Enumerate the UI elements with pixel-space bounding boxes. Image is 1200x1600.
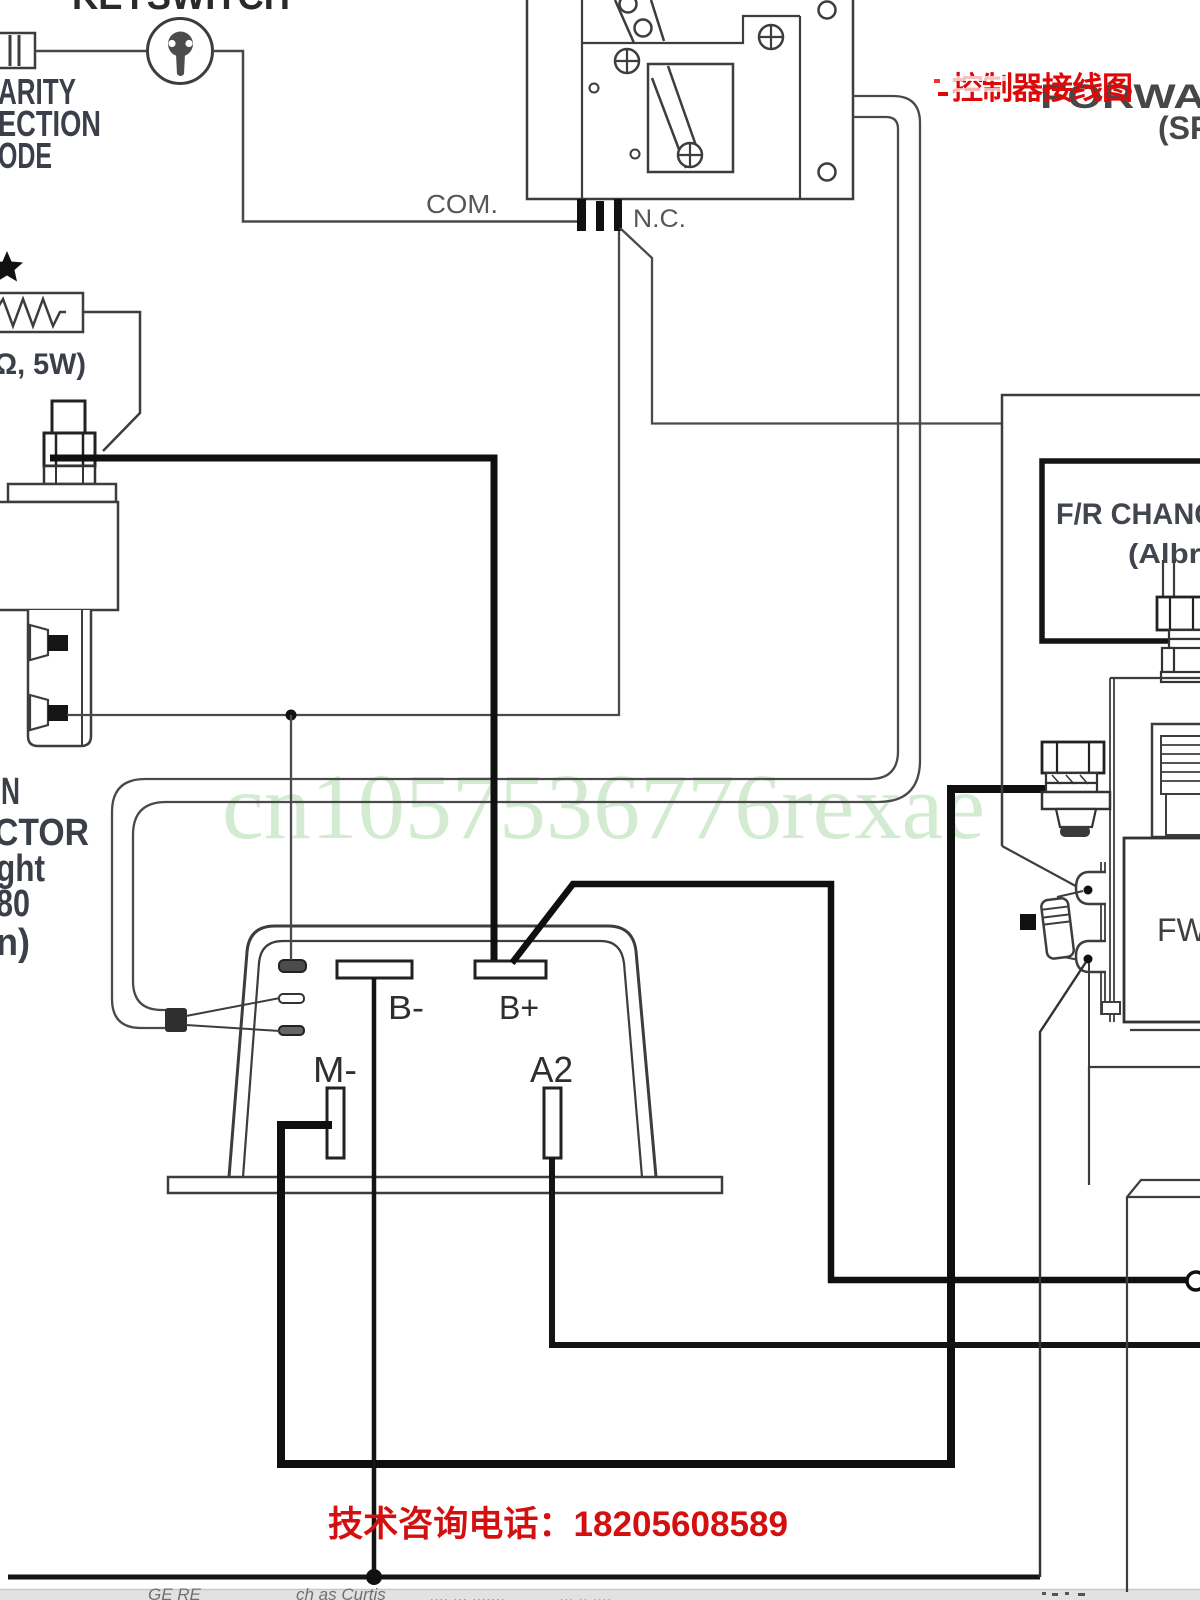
wire diode to keyswitch [35,50,148,53]
wire pair B: switch bracket to controller connector [133,96,920,1010]
svg-text:A2: A2 [530,1049,573,1090]
coil terminal clamp lower [1076,941,1106,972]
wire N.C. pin to F/R assembly [620,228,1002,424]
KSI pin [279,960,306,972]
coil terminal dot lower [1084,955,1093,964]
controller base plate [168,1177,722,1193]
suppressor top lead [1057,891,1083,897]
main contactor body [0,484,118,746]
terminal M- [327,1088,344,1158]
svg-text:N: N [1,771,20,813]
wire N.C. pin to junction and contactor coil [67,231,619,715]
thick wire B+ to motor terminal [512,884,1186,1280]
keyswitch SW1 [148,19,213,84]
right stud washers [1169,630,1200,648]
right stud collar [1161,672,1200,682]
fan wire to pin 2 [186,998,280,1016]
svg-text:cn1057536776rexae: cn1057536776rexae [222,756,985,859]
wire B- down to battery line [372,978,377,1577]
svg-text:.... ... .......: .... ... ....... [430,1586,506,1600]
right stud lower stem [1162,648,1174,672]
main contactor stud bolt [44,401,95,484]
left stud flange [1042,792,1110,809]
svg-text:N.C.: N.C. [633,205,686,233]
contactor coil spade terminal 1 [30,625,68,660]
pivot hole small b [631,150,640,159]
pin 2 [279,994,304,1003]
faint bottom text fragments [148,1585,612,1600]
wire plate to FW coil terminal [1002,846,1083,890]
svg-text:M-: M- [313,1049,357,1090]
bottom gray band [0,1589,1200,1600]
screw S3 [678,143,702,167]
thick wire contactor stud to B+ (down) [50,458,494,960]
suppressor bottom lead [1064,957,1084,961]
actuator lever arm (top) [615,0,664,43]
coil bobbin edge [1101,862,1120,1015]
wire keyswitch to COM pin [213,51,579,222]
motor frame top [1089,1067,1200,1185]
left stud washers [1046,773,1097,792]
svg-text:B-: B- [388,989,424,1026]
coil terminal clamp upper [1076,872,1106,904]
left stud lower stem [1056,809,1096,827]
pin 3 [279,1026,304,1035]
screw S2 [759,25,783,49]
wire junction down to KSI pin [290,715,292,960]
F/R changeover label box [1042,461,1200,641]
wire pair A: switch bracket to controller connector [112,117,898,1028]
fan wire to pin 3 [186,1025,280,1031]
svg-text:ODE: ODE [0,135,52,176]
polarity square marker [1020,914,1036,930]
brush stack box [1152,724,1200,837]
bracket hole bottom [819,164,836,181]
contactor coil spade terminal 2 [30,695,68,730]
FW coil box bottom flange [1130,1029,1200,1031]
suppressor diode across coil [1041,898,1075,960]
coil terminal dot upper [1084,886,1093,895]
microswitch mounting bracket [527,0,853,199]
motor terminal 3D box [1127,1180,1200,1592]
svg-text:n): n) [0,922,30,964]
svg-text:80: 80 [0,883,30,925]
red title text (wiring diagram, glitched) [934,71,1132,106]
F/R assembly mounting plate outline [1002,395,1200,846]
svg-text:KEYSWITCH: KEYSWITCH [72,0,290,18]
screw S1 [615,49,639,73]
left stud dark tip [1060,826,1090,837]
right stud threaded stem [1163,560,1174,597]
bottom band smudges [1042,1592,1085,1596]
switch pin middle [596,201,604,231]
controller outer shell [229,926,656,1177]
switch lever window [648,64,733,172]
motor ring terminal [1187,1272,1200,1290]
terminal bar B- [337,961,412,978]
switch pin N.C. [614,199,622,231]
resistor R1 (5W) [0,293,83,332]
bracket hole top [819,2,836,19]
FW coil front box [1124,838,1200,1022]
svg-text:技术咨询电话：18205608589: 技术咨询电话：18205608589 [328,1505,788,1544]
label POLARITY PROTECTION DIODE (cut at left) [0,71,101,176]
polarity protection diode D1 [0,33,35,68]
junction node B- [366,1569,382,1585]
svg-text:... .. ....: ... .. .... [560,1586,612,1600]
right stud hex nut [1157,597,1200,630]
microswitch body plate [582,0,800,199]
svg-text:FW: FW [1157,912,1200,948]
F/R unit side face [1110,678,1200,1022]
svg-text:ch as Curtis: ch as Curtis [296,1585,386,1600]
svg-text:COM.: COM. [426,189,498,219]
wire lower coil terminal to motor frame [1088,963,1090,1067]
terminal bar B+ [475,961,546,978]
svg-text:(SPD: (SPD [1158,110,1200,146]
left stud hex nut [1042,742,1104,773]
wire lower coil terminal to battery line [1040,962,1086,1577]
svg-text:B+: B+ [499,989,539,1026]
svg-text:F/R CHANGEOVER: F/R CHANGEOVER [1056,498,1200,531]
wire resistor to contactor stud [83,312,140,451]
bottom battery wire [8,1575,1040,1580]
svg-text:Ω, 5W): Ω, 5W) [0,348,86,381]
thick wire M- to F/R stud [281,789,1050,1464]
terminal A2 [544,1088,561,1158]
wire A2 to right [552,1158,1200,1345]
pivot hole small a [590,84,599,93]
connector block [165,1008,187,1032]
controller inner shell [243,941,642,1177]
junction node [286,710,297,721]
switch pin COM [577,199,586,231]
svg-text:GE RE: GE RE [148,1585,202,1600]
star marker [0,251,23,282]
label MAIN CONTACTOR (Albright SW80 shown) cut at left [0,771,89,964]
